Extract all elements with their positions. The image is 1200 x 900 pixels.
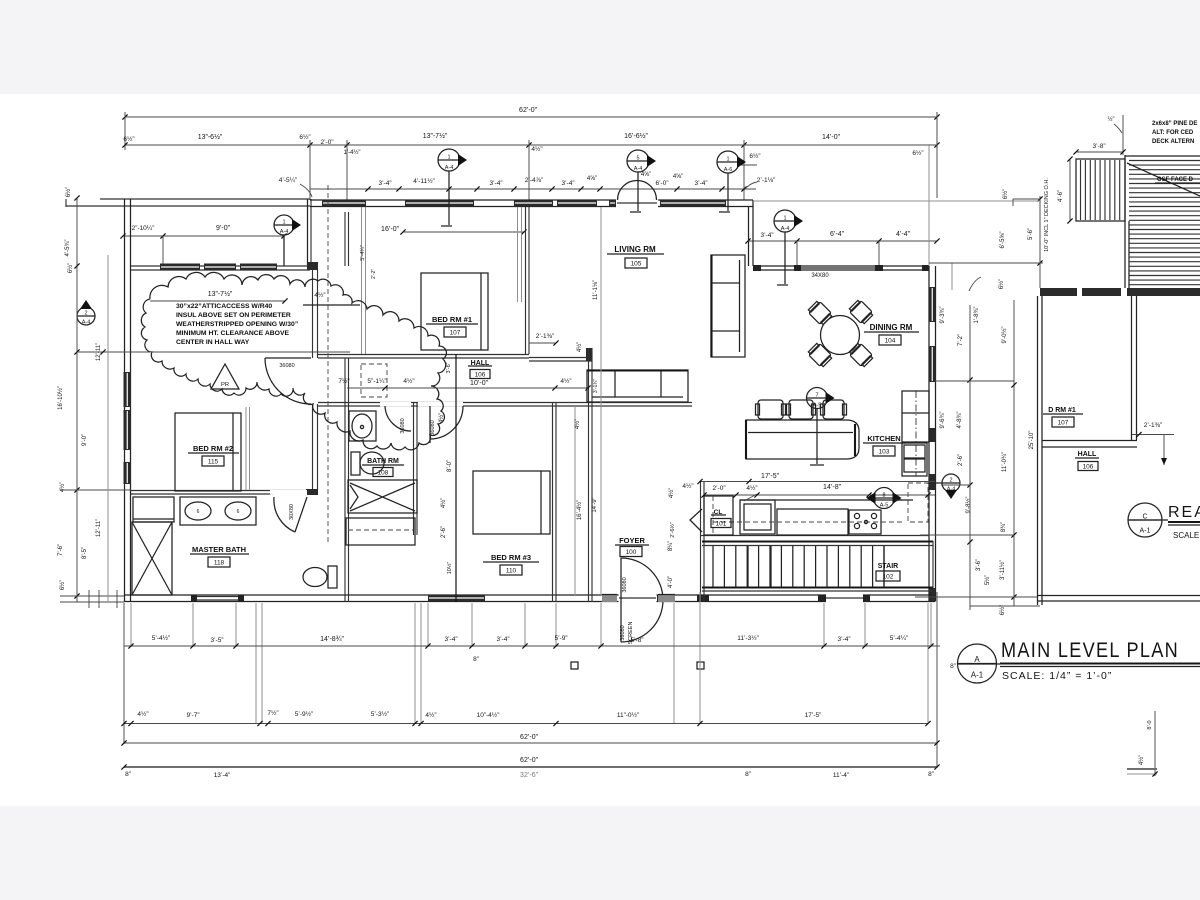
svg-text:13”-7½”: 13”-7½” [208, 290, 233, 298]
svg-text:A-5: A-5 [813, 403, 822, 409]
svg-text:PR: PR [221, 382, 229, 388]
svg-text:MAIN LEVEL PLAN: MAIN LEVEL PLAN [1001, 639, 1179, 662]
svg-text:2”-10¼”: 2”-10¼” [132, 225, 155, 232]
svg-text:36080: 36080 [620, 625, 626, 640]
svg-text:5’-9”: 5’-9” [554, 635, 567, 642]
svg-text:8¾”: 8¾” [1001, 522, 1007, 532]
svg-text:5’-8”: 5’-8” [630, 637, 643, 644]
svg-text:4⅝”: 4⅝” [673, 174, 683, 180]
svg-text:17’-5”: 17’-5” [805, 712, 822, 719]
svg-text:4½”: 4½” [574, 419, 581, 429]
svg-text:1: 1 [783, 216, 786, 222]
svg-text:101: 101 [716, 521, 727, 528]
svg-text:5’-4¼”: 5’-4¼” [890, 635, 908, 642]
svg-text:8”: 8” [745, 771, 751, 778]
svg-text:2’-2”: 2’-2” [371, 269, 377, 279]
svg-text:106: 106 [1083, 464, 1094, 471]
svg-text:10’-0” INCL 1” DECKING O.H.: 10’-0” INCL 1” DECKING O.H. [1044, 178, 1050, 252]
svg-text:LIVING RM: LIVING RM [614, 245, 656, 254]
svg-text:2: 2 [949, 478, 952, 484]
svg-text:7½”: 7½” [267, 709, 278, 717]
svg-text:DECK ALTERN: DECK ALTERN [1152, 139, 1194, 145]
svg-text:16’-4½”: 16’-4½” [576, 500, 583, 520]
svg-text:5”-1¼”: 5”-1¼” [367, 378, 386, 385]
svg-text:2’-4⅞”: 2’-4⅞” [525, 177, 543, 184]
svg-text:SCALE: 1/4” = 1’-0”: SCALE: 1/4” = 1’-0” [1002, 670, 1112, 682]
svg-text:14’-8”: 14’-8” [823, 484, 842, 491]
svg-text:100: 100 [626, 549, 637, 556]
svg-text:6’-5⅝”: 6’-5⅝” [1000, 231, 1006, 248]
svg-text:1: 1 [282, 220, 285, 226]
svg-text:3’-4”: 3’-4” [760, 232, 773, 239]
svg-text:4’-8¾”: 4’-8¾” [957, 411, 963, 428]
svg-text:4½”: 4½” [746, 484, 757, 492]
svg-text:9’-0”: 9’-0” [82, 434, 88, 446]
svg-text:30X80: 30X80 [289, 504, 295, 520]
svg-text:12’-11”: 12’-11” [96, 519, 102, 537]
svg-text:108: 108 [378, 470, 389, 477]
svg-text:7: 7 [815, 393, 818, 399]
svg-text:2’-1⅛”: 2’-1⅛” [757, 177, 775, 184]
svg-text:4’-0”: 4’-0” [668, 576, 674, 588]
svg-text:5’-4½”: 5’-4½” [152, 634, 170, 642]
svg-text:2’-1⅜”: 2’-1⅜” [536, 333, 554, 340]
svg-text:7½”: 7½” [338, 377, 349, 385]
svg-text:10”-4½”: 10”-4½” [477, 711, 500, 719]
svg-text:8’-0”: 8’-0” [447, 460, 453, 472]
svg-text:BED RM #1: BED RM #1 [432, 315, 472, 324]
svg-text:4½”: 4½” [1138, 755, 1145, 765]
svg-text:9’-8½”: 9’-8½” [965, 496, 972, 513]
svg-text:12’-11”: 12’-11” [96, 343, 102, 361]
svg-text:2’-6½”: 2’-6½” [669, 522, 676, 538]
svg-text:HALL: HALL [1078, 451, 1097, 458]
svg-text:4½”: 4½” [314, 291, 325, 299]
svg-text:103: 103 [879, 449, 890, 456]
svg-text:A-1: A-1 [971, 671, 984, 680]
svg-text:6: 6 [197, 509, 200, 515]
svg-text:8¼”: 8¼” [668, 541, 674, 551]
svg-text:3’-6”: 3’-6” [446, 362, 452, 373]
svg-text:4½”: 4½” [403, 377, 414, 385]
svg-text:2x6x8” PINE DE: 2x6x8” PINE DE [1152, 121, 1197, 127]
svg-text:17’-5”: 17’-5” [761, 473, 780, 480]
svg-text:D RM #1: D RM #1 [1048, 407, 1076, 414]
svg-text:6: 6 [237, 509, 240, 515]
svg-text:9’-0”: 9’-0” [216, 225, 231, 232]
svg-text:3’-4”: 3’-4” [444, 636, 457, 643]
svg-text:118: 118 [214, 560, 225, 567]
svg-text:6½”: 6½” [1002, 189, 1009, 199]
svg-text:4½”: 4½” [576, 342, 583, 352]
svg-text:2’-0”: 2’-0” [712, 485, 725, 492]
svg-text:2: 2 [84, 311, 87, 317]
svg-text:ALT: FOR CED: ALT: FOR CED [1152, 130, 1194, 136]
svg-text:6’-4”: 6’-4” [830, 231, 845, 238]
svg-text:3’-6”: 3’-6” [976, 559, 982, 571]
svg-text:STAIR: STAIR [878, 563, 898, 570]
svg-text:3’-4”: 3’-4” [694, 180, 707, 187]
svg-text:1: 1 [447, 155, 450, 161]
svg-text:KITCHEN: KITCHEN [867, 434, 900, 443]
svg-text:6½”: 6½” [998, 279, 1005, 289]
svg-text:A-4: A-4 [781, 226, 790, 232]
svg-text:MINIMUM HT. CLEARANCE ABOVE: MINIMUM HT. CLEARANCE ABOVE [176, 330, 289, 337]
svg-text:REA: REA [1168, 504, 1200, 521]
svg-text:9’-3¾”: 9’-3¾” [940, 306, 946, 323]
svg-text:A-1: A-1 [1140, 528, 1151, 535]
svg-text:BED RM #3: BED RM #3 [491, 553, 531, 562]
svg-text:14’-8¾”: 14’-8¾” [320, 636, 344, 643]
svg-text:6½”: 6½” [65, 187, 72, 197]
svg-text:2’-1⅜”: 2’-1⅜” [1144, 422, 1162, 429]
svg-text:106: 106 [475, 372, 486, 379]
svg-text:14’-9”: 14’-9” [592, 497, 598, 512]
svg-text:8’-5”: 8’-5” [82, 547, 88, 559]
svg-text:16’-10½”: 16’-10½” [57, 386, 64, 410]
svg-text:4½”: 4½” [440, 498, 447, 508]
svg-text:4½”: 4½” [668, 488, 675, 498]
svg-text:7’-6”: 7’-6” [58, 544, 64, 556]
svg-text:4½”: 4½” [682, 482, 693, 490]
svg-text:115: 115 [208, 459, 219, 466]
svg-text:3’-4”: 3’-4” [496, 636, 509, 643]
svg-text:11”-0½”: 11”-0½” [617, 711, 639, 719]
svg-text:5’-9½”: 5’-9½” [295, 710, 313, 718]
svg-text:8”: 8” [473, 656, 479, 663]
svg-text:WEATHERSTRIPPED OPENING W/30”: WEATHERSTRIPPED OPENING W/30” [176, 321, 298, 328]
svg-text:6½”: 6½” [123, 135, 134, 143]
svg-text:4’-5¼”: 4’-5¼” [279, 177, 297, 184]
svg-text:107: 107 [450, 330, 461, 337]
svg-text:10’-0”: 10’-0” [470, 380, 489, 387]
svg-text:5½”: 5½” [984, 575, 991, 585]
svg-text:6½”: 6½” [749, 152, 760, 160]
svg-text:3’-1¾”: 3’-1¾” [593, 379, 599, 394]
svg-text:13”-6½”: 13”-6½” [198, 133, 223, 141]
svg-text:CENTER IN HALL WAY: CENTER IN HALL WAY [176, 339, 250, 346]
svg-text:3’-5”: 3’-5” [210, 637, 223, 644]
svg-text:8”: 8” [928, 771, 934, 778]
svg-text:6½”: 6½” [59, 580, 66, 590]
svg-text:½”: ½” [1107, 116, 1114, 123]
svg-text:2’-0”: 2’-0” [320, 139, 333, 146]
svg-text:9’-7”: 9’-7” [186, 712, 199, 719]
svg-text:8: 8 [882, 493, 885, 499]
svg-text:OSF FACE D: OSF FACE D [1157, 177, 1194, 183]
svg-text:6½”: 6½” [912, 149, 923, 157]
svg-text:5’-3½”: 5’-3½” [371, 710, 389, 718]
svg-text:6’-0”: 6’-0” [655, 180, 668, 187]
svg-text:62’-0”: 62’-0” [520, 757, 539, 764]
svg-text:1’-4½”: 1’-4½” [343, 149, 360, 156]
svg-text:A-4: A-4 [445, 165, 454, 171]
svg-text:3’-11½”: 3’-11½” [999, 560, 1006, 580]
svg-text:A-4: A-4 [280, 229, 289, 235]
svg-text:9’-0½”: 9’-0½” [1001, 326, 1008, 343]
svg-text:1’-8¾”: 1’-8¾” [974, 306, 980, 323]
svg-text:INSUL ABOVE SET ON PERIMETER: INSUL ABOVE SET ON PERIMETER [176, 312, 291, 319]
svg-text:36080: 36080 [430, 420, 436, 435]
svg-text:BED RM #2: BED RM #2 [193, 444, 233, 453]
svg-text:10½”: 10½” [446, 562, 453, 575]
svg-text:4½”: 4½” [425, 711, 436, 719]
svg-text:36080: 36080 [400, 418, 406, 433]
svg-text:6½”: 6½” [299, 133, 310, 141]
svg-text:4½”: 4½” [560, 377, 571, 385]
svg-text:2’-6”: 2’-6” [441, 526, 447, 538]
svg-text:4⅝”: 4⅝” [587, 176, 597, 182]
svg-text:104: 104 [885, 338, 896, 345]
svg-text:4½”: 4½” [531, 145, 542, 153]
svg-text:1: 1 [726, 157, 729, 163]
svg-text:110: 110 [506, 568, 517, 575]
svg-text:11’-3½”: 11’-3½” [737, 634, 759, 642]
svg-text:8”: 8” [125, 771, 131, 778]
svg-text:7’-2”: 7’-2” [958, 334, 964, 346]
svg-text:11’-0¾”: 11’-0¾” [1002, 452, 1008, 472]
svg-text:4’-11½”: 4’-11½” [413, 177, 435, 185]
svg-text:62’-0”: 62’-0” [520, 734, 539, 741]
svg-text:11’-1⅛”: 11’-1⅛” [593, 280, 599, 300]
svg-text:4½”: 4½” [137, 710, 148, 718]
svg-text:62’-0”: 62’-0” [519, 107, 538, 114]
svg-text:SCALE: SCALE [1173, 531, 1199, 540]
svg-text:DINING RM: DINING RM [870, 323, 913, 332]
svg-text:36080: 36080 [279, 363, 294, 369]
svg-text:FOYER: FOYER [619, 536, 645, 545]
svg-text:A: A [974, 655, 980, 664]
svg-text:16’-6½”: 16’-6½” [624, 132, 648, 140]
svg-text:4’-6”: 4’-6” [1058, 190, 1064, 202]
svg-text:3’-4”: 3’-4” [489, 180, 502, 187]
svg-text:34X80: 34X80 [811, 273, 829, 279]
svg-text:A-4: A-4 [634, 166, 643, 172]
svg-text:32’-6”: 32’-6” [520, 772, 539, 779]
svg-text:4’-4”: 4’-4” [896, 231, 911, 238]
svg-text:2’-6”: 2’-6” [958, 454, 964, 466]
svg-text:8”: 8” [950, 663, 956, 670]
svg-text:5’-4¼”: 5’-4¼” [360, 245, 366, 261]
svg-text:105: 105 [631, 261, 642, 268]
svg-text:3’-4”: 3’-4” [837, 636, 850, 643]
svg-text:6½”: 6½” [67, 263, 74, 273]
svg-text:3’-4”: 3’-4” [378, 180, 391, 187]
svg-text:107: 107 [1058, 420, 1069, 427]
svg-text:13’-4”: 13’-4” [214, 772, 231, 779]
svg-text:5’-6”: 5’-6” [1028, 228, 1034, 240]
svg-text:4⅝”: 4⅝” [641, 172, 651, 178]
svg-text:16’-0”: 16’-0” [381, 226, 400, 233]
svg-text:13”-7½”: 13”-7½” [423, 132, 448, 140]
svg-text:3’-8”: 3’-8” [1092, 143, 1105, 150]
svg-text:MASTER BATH: MASTER BATH [192, 545, 246, 554]
svg-text:102: 102 [883, 574, 894, 581]
svg-text:25’-10”: 25’-10” [1029, 431, 1035, 450]
svg-text:3’-4”: 3’-4” [561, 180, 574, 187]
svg-text:8’-0: 8’-0 [1147, 720, 1153, 729]
svg-text:A-6: A-6 [724, 167, 733, 173]
svg-text:A-5: A-5 [880, 503, 889, 509]
svg-text:11’-4”: 11’-4” [833, 772, 849, 779]
svg-text:4½”: 4½” [59, 482, 66, 492]
svg-text:14’-0”: 14’-0” [822, 134, 841, 141]
svg-text:36080: 36080 [622, 577, 628, 592]
svg-text:9’-6¾”: 9’-6¾” [940, 411, 946, 428]
svg-text:4’-5¾”: 4’-5¾” [65, 239, 71, 256]
svg-text:5: 5 [636, 156, 639, 162]
svg-text:A-4: A-4 [82, 320, 91, 326]
svg-text:30”x22”ATTICACCESS W/R40: 30”x22”ATTICACCESS W/R40 [176, 303, 272, 310]
